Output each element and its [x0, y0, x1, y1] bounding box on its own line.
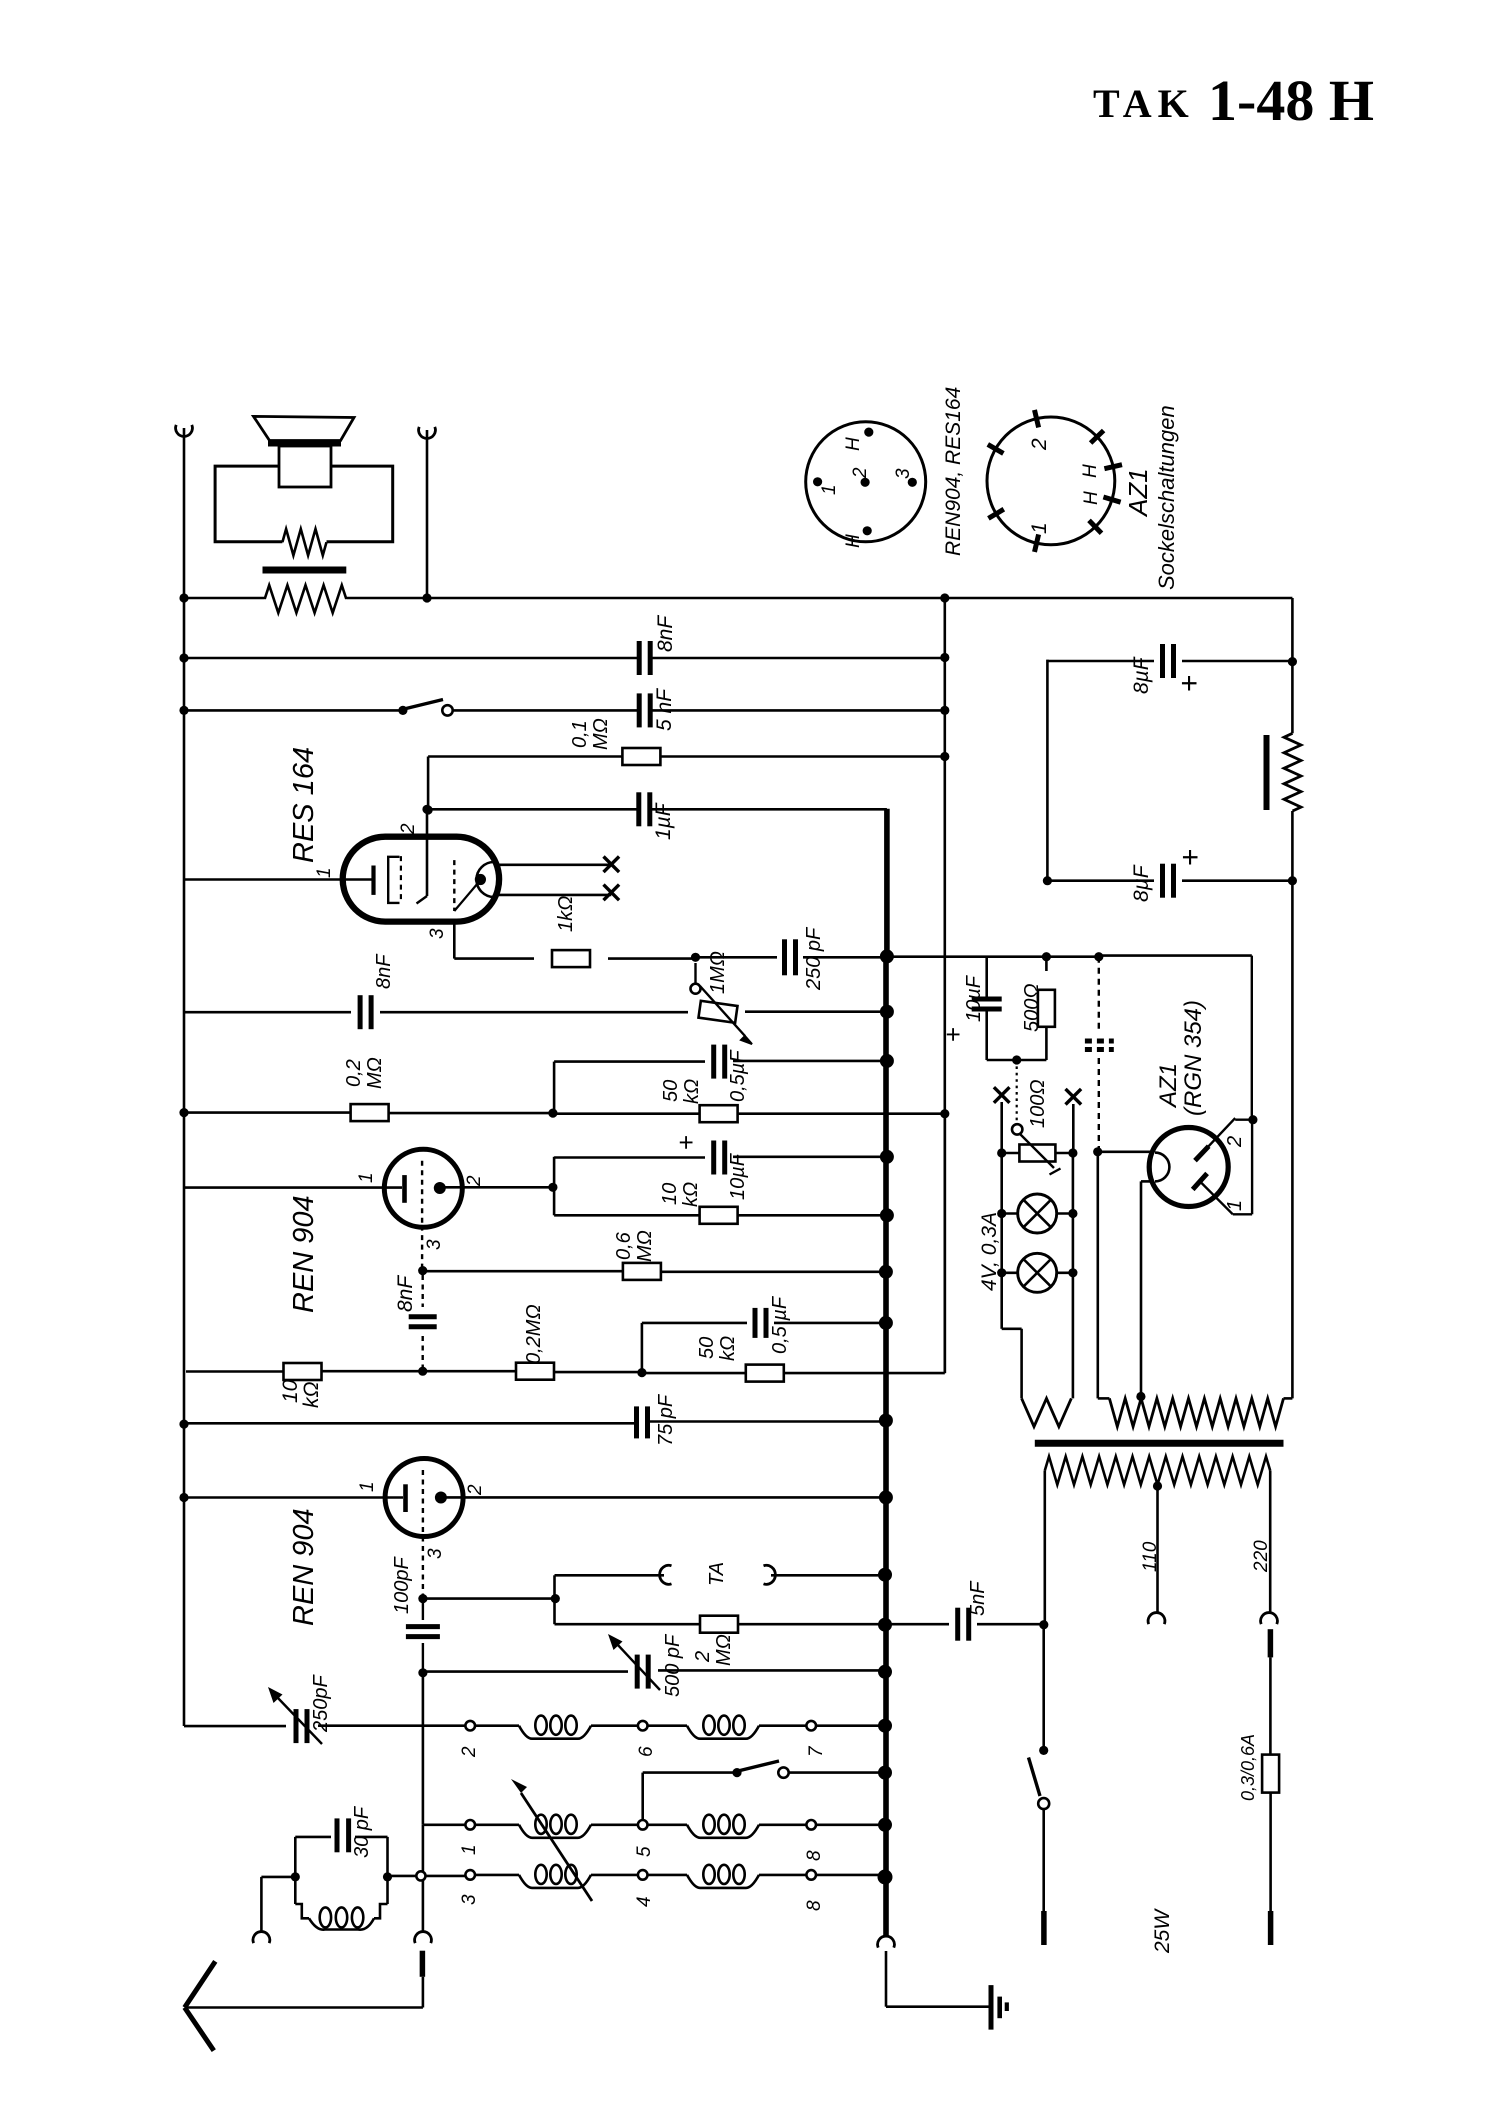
REN904#1 pin2 dot — [548, 1183, 557, 1192]
wire AZ1 filament to CT — [1141, 1181, 1154, 1395]
socket diagram AZ1 base circle — [987, 410, 1122, 552]
label 1kohm — [555, 896, 577, 932]
svg-text:0,2: 0,2 — [343, 1059, 365, 1087]
tube REN904 #2 envelope — [385, 1459, 463, 1537]
wire coil row2 right — [759, 1824, 807, 1827]
wire 8uF#1 line y661 — [1047, 660, 1292, 881]
svg-text:75 pF: 75 pF — [655, 1393, 677, 1446]
wire x1098 to winding — [1097, 1152, 1100, 1399]
mains plug pin left — [1041, 1911, 1047, 1945]
svg-text:3: 3 — [424, 1239, 445, 1250]
wire to pot arm — [1016, 1060, 1018, 1124]
junction dot y1215 bus — [880, 1208, 894, 1222]
RES164 pin1 wire — [184, 878, 374, 881]
svg-text:1kΩ: 1kΩ — [555, 896, 577, 932]
wire 110 tap — [1156, 1489, 1159, 1613]
variable capacitor 250pF — [268, 1687, 322, 1744]
junction dot y1323 bus — [879, 1316, 893, 1330]
tube REN904 #1 envelope — [384, 1149, 462, 1227]
AZ1 filament arc — [1155, 1153, 1169, 1182]
junction dots y1423 — [179, 1414, 893, 1429]
label 8nF top — [654, 615, 677, 652]
wire coil row3 mid — [591, 1874, 638, 1877]
resistor 10kohm #1 — [700, 1207, 738, 1224]
label 10kohm pair — [659, 1182, 702, 1207]
RES164 anode dashed — [454, 860, 478, 911]
svg-text:10: 10 — [659, 1183, 681, 1205]
svg-text:0,3/0,6A: 0,3/0,6A — [1238, 1734, 1258, 1801]
wire 0,5uF#2 line y1323 — [642, 1323, 886, 1373]
svg-text:REN904, RES164: REN904, RES164 — [942, 387, 965, 556]
socket pin 1 — [813, 477, 840, 495]
switch on line y711 — [398, 700, 452, 716]
antenna coil — [295, 1877, 387, 1930]
svg-text:2: 2 — [464, 1175, 485, 1187]
svg-text:8µF: 8µF — [1130, 656, 1153, 694]
wire 2Mohm line y1624 — [555, 1623, 886, 1626]
svg-text:10µF: 10µF — [963, 974, 985, 1022]
terminal circle 1 — [459, 1820, 480, 1855]
RES164 anode dot — [475, 874, 486, 885]
REN904#1 grid dashed — [421, 1161, 423, 1226]
terminal cup 110 — [1148, 1613, 1165, 1625]
capacitor 75pF — [637, 1406, 648, 1438]
REN904#1 pin2 wire — [440, 1186, 553, 1189]
label 8nF #3 — [394, 1275, 417, 1312]
svg-text:MΩ: MΩ — [364, 1057, 386, 1089]
label 100pF — [391, 1556, 413, 1614]
label 0,2Mohm #1 — [343, 1057, 386, 1089]
coil L3b — [648, 1865, 760, 1888]
coil L3a — [475, 1865, 591, 1888]
resistor 2Mohm — [700, 1616, 738, 1633]
X mark filament bottom — [604, 885, 620, 901]
antenna plug pin — [420, 1951, 426, 1977]
svg-text:MΩ: MΩ — [590, 718, 612, 750]
label 30 pF — [351, 1805, 373, 1858]
REN904#1 pin1 wire — [184, 1186, 402, 1189]
svg-text:50: 50 — [660, 1080, 682, 1102]
REN904#1 anode dot — [434, 1182, 446, 1194]
output transformer primary zigzag — [265, 585, 347, 613]
wire right speaker terminal drop — [426, 430, 429, 598]
label 110 — [1140, 1541, 1161, 1572]
dial lamp 1 — [1002, 1194, 1073, 1233]
label 25W — [1151, 1908, 1174, 1954]
mains switch — [1029, 1625, 1050, 1911]
svg-text:0,6: 0,6 — [613, 1231, 635, 1260]
capacitor 0,5uF #2 — [755, 1308, 766, 1338]
wire line y598 right + corner — [945, 598, 1293, 662]
svg-text:AZ1: AZ1 — [1123, 468, 1153, 518]
resistor 50kohm #1 — [700, 1105, 738, 1122]
svg-text:8nF: 8nF — [394, 1275, 417, 1312]
mains plug pin segment 220 — [1268, 1629, 1274, 1657]
wire primary left drop — [1044, 1471, 1047, 1624]
wire dashed x1098 lower — [1098, 1058, 1100, 1152]
resistor 0,2Mohm #1 — [351, 1104, 389, 1121]
svg-text:1µF: 1µF — [652, 802, 675, 840]
svg-text:2: 2 — [459, 1746, 480, 1758]
speaker voice coil — [279, 446, 331, 487]
terminal circle 5 — [634, 1820, 655, 1857]
resistor 500ohm — [1038, 957, 1055, 1060]
svg-text:H: H — [1080, 464, 1101, 478]
svg-text:8nF: 8nF — [373, 953, 395, 989]
svg-text:+: + — [671, 1135, 701, 1150]
capacitor 5nF top — [639, 693, 650, 727]
junction dots TA — [878, 1568, 892, 1632]
junction dot y1157 bus — [880, 1150, 894, 1164]
wire 75pF line y1423 — [184, 1422, 886, 1424]
svg-text:0,1: 0,1 — [569, 720, 591, 748]
REN904#2 pin1 wire — [184, 1496, 403, 1499]
label Sockelschaltungen — [1154, 405, 1179, 590]
junction dot switch bus — [878, 1766, 892, 1780]
svg-text:2: 2 — [692, 1651, 714, 1663]
wire to bus row3 — [816, 1870, 893, 1885]
svg-text:MΩ: MΩ — [713, 1634, 735, 1666]
svg-text:1: 1 — [459, 1844, 480, 1855]
svg-text:220: 220 — [1251, 1540, 1272, 1573]
terminal cup left — [176, 425, 193, 437]
junction dots ren2 — [179, 1490, 893, 1504]
junction dots lamp2 — [997, 1268, 1077, 1277]
wire lamp rail right bottom — [1072, 1273, 1075, 1399]
wire TA junction line y1599 — [418, 1594, 560, 1603]
junction dots y1272 — [418, 1265, 893, 1279]
svg-text:2: 2 — [398, 823, 419, 835]
RES164 filament wires to X — [494, 865, 611, 895]
label 250 pF — [803, 926, 825, 991]
svg-text:1: 1 — [314, 867, 335, 878]
AZ1 anode bar bottom — [1193, 1173, 1207, 1189]
junction dots 100ohm — [997, 1148, 1077, 1157]
terminal cup right — [419, 427, 436, 439]
svg-text:500 pF: 500 pF — [662, 1633, 684, 1697]
label 75 pF — [655, 1393, 677, 1446]
svg-text:REN 904: REN 904 — [288, 1195, 320, 1313]
socket AZ1 pin H labels — [1080, 464, 1102, 505]
resistor 10kohm #2 — [284, 1363, 322, 1380]
wire heater rails mid2 — [1002, 1214, 1073, 1273]
label 50kohm #2 — [696, 1336, 739, 1361]
resistor 0,2Mohm #2 — [516, 1363, 554, 1380]
REN904#2 pin2 wire — [441, 1496, 886, 1499]
wire bottom of filter — [987, 1055, 1047, 1064]
junction dot y1012 bus — [880, 1005, 894, 1019]
svg-text:4V, 0,3A: 4V, 0,3A — [978, 1212, 1001, 1291]
wire heater rails mid — [1002, 1153, 1073, 1214]
label REN904, RES164 — [942, 387, 965, 556]
svg-text:3: 3 — [459, 1894, 480, 1905]
wire 0,6Mohm line y1272 — [423, 1270, 886, 1273]
wire heater rail left top — [994, 1087, 1010, 1153]
wire line y1372 — [186, 1114, 945, 1373]
svg-text:kΩ: kΩ — [681, 1079, 703, 1104]
resistor 1kohm — [552, 950, 590, 967]
coil L2b — [648, 1815, 760, 1838]
junction dots lamp1 — [997, 1209, 1077, 1218]
RES164 filament arc — [477, 862, 495, 897]
label AZ1 (RGN 354) — [1155, 1000, 1207, 1116]
wire 250pF line y1726 — [184, 1724, 465, 1727]
transformer HV winding — [1098, 1398, 1293, 1426]
svg-text:H: H — [843, 534, 864, 548]
capacitor 8nF #3 vertical — [409, 1275, 437, 1371]
junction dot y810 — [422, 805, 431, 814]
terminal TA left — [660, 1565, 672, 1584]
AZ1 pin2 dot — [1248, 1115, 1257, 1124]
svg-text:10: 10 — [279, 1379, 302, 1403]
fuse 0,3/0,6A — [1262, 1755, 1279, 1793]
svg-text:+: + — [1173, 674, 1206, 692]
junction dots y958 — [691, 949, 1104, 963]
potentiometer 1Mohm — [691, 963, 753, 1044]
junction dot 8uF#1 right — [1288, 657, 1297, 666]
primary CT dot — [1153, 1481, 1162, 1490]
svg-text:+: + — [1174, 848, 1207, 866]
svg-text:5 nF: 5 nF — [653, 688, 676, 731]
junction dots y1372 — [418, 1367, 646, 1378]
label 1uF — [652, 802, 675, 840]
junction dots y658 — [179, 653, 949, 663]
AZ1 pin labels — [1224, 1136, 1246, 1211]
wire line y598 left — [184, 597, 945, 600]
RES164 screen grid (pin2) — [417, 810, 428, 904]
wire lamp rail left bottom — [1002, 1273, 1022, 1399]
capacitor 8nF #2 — [360, 995, 371, 1029]
wire 0,5uF line y1062 — [554, 1061, 887, 1114]
capacitor 0,5uF #1 — [714, 1045, 725, 1079]
capacitor 10uF right — [972, 957, 1002, 1060]
svg-text:2: 2 — [1028, 438, 1051, 451]
label REN 904 #1 — [288, 1195, 320, 1313]
capacitor mains dashed — [1085, 1041, 1114, 1050]
svg-text:250 pF: 250 pF — [803, 926, 825, 991]
ground symbol — [991, 1985, 1007, 2030]
wire line y1113 — [184, 1113, 945, 1114]
capacitor 8uF #2 — [1163, 864, 1174, 898]
wire line y757 — [428, 757, 945, 811]
wire line y658 — [184, 657, 945, 660]
socket diagram REN904/RES164 base circle — [806, 422, 926, 542]
svg-text:1MΩ: 1MΩ — [707, 951, 729, 994]
wire y958 right — [696, 956, 1252, 958]
wire fuse lower — [1269, 1793, 1272, 1911]
ground bus cup — [878, 1936, 895, 1948]
svg-text:0,2MΩ: 0,2MΩ — [523, 1304, 545, 1364]
wire antenna lead — [185, 1977, 423, 2008]
wire line y711 with switch — [184, 709, 945, 712]
RES164 label pin2 — [398, 823, 419, 835]
terminal cup earth — [253, 1932, 270, 1944]
coil L2a — [475, 1815, 591, 1838]
label 220 — [1251, 1540, 1272, 1573]
REN904#2 labels — [357, 1481, 486, 1559]
svg-text:kΩ: kΩ — [680, 1182, 702, 1207]
label 50kohm #1 — [660, 1079, 703, 1104]
wire coil row1 right — [759, 1724, 807, 1727]
capacitor 8nF top — [639, 641, 650, 675]
RES164 grid bracket — [388, 856, 401, 904]
wire coil row2 mid — [591, 1824, 638, 1827]
terminal circle 2 — [459, 1721, 480, 1758]
junction dots y1113 — [179, 1108, 949, 1118]
antenna symbol — [185, 1961, 216, 2050]
label + 10uF — [671, 1135, 701, 1150]
wire ground lead — [886, 1951, 991, 2007]
wire 500pF line y1673 — [418, 1665, 892, 1679]
svg-text:H: H — [843, 437, 864, 451]
wire x423 vertical (ant column) — [422, 1673, 425, 1871]
svg-text:110: 110 — [1140, 1541, 1161, 1572]
svg-text:1: 1 — [1028, 522, 1051, 534]
junction dots y598 — [179, 593, 949, 602]
RES164 pin3 wire — [454, 922, 695, 959]
svg-text:8: 8 — [804, 1900, 825, 1911]
wire left bus vertical — [183, 428, 186, 1726]
capacitor 250pF — [785, 939, 796, 975]
capacitor 8uF #1 — [1163, 644, 1174, 678]
label 0,5uF #2 — [769, 1295, 791, 1354]
junction dot y757 — [940, 752, 949, 761]
svg-text:2: 2 — [1224, 1136, 1246, 1148]
capacitor 10uF #1 — [714, 1141, 725, 1175]
wire to bus row2 — [816, 1818, 892, 1832]
svg-text:1: 1 — [356, 1172, 377, 1183]
coil L1a — [475, 1716, 591, 1739]
junction dot y1062 bus — [880, 1054, 894, 1068]
svg-text:AZ1: AZ1 — [1155, 1063, 1182, 1109]
label 10kohm #2 — [279, 1379, 323, 1408]
wire right bus down to transformer — [1291, 881, 1294, 1399]
transformer core bar — [1035, 1440, 1284, 1447]
label 0,1 Mohm — [569, 718, 612, 750]
speaker flange bar — [268, 441, 341, 447]
RES164 pin2 node dot — [424, 805, 433, 814]
socket AZ1 pin 1 label — [1028, 522, 1051, 534]
AZ1 anode top lead — [1202, 1118, 1253, 1153]
capacitor 1uF — [639, 792, 650, 826]
svg-text:(RGN 354): (RGN 354) — [1180, 1000, 1207, 1116]
svg-text:8µF: 8µF — [1130, 864, 1153, 902]
svg-text:MΩ: MΩ — [634, 1230, 656, 1262]
tuning arrow coils — [511, 1779, 592, 1901]
junction dots 8uF#2 — [1043, 876, 1297, 885]
wire coil row2 left — [423, 1824, 465, 1827]
label 10uF #1 — [727, 1152, 749, 1200]
dial lamp 2 — [1002, 1253, 1073, 1292]
RES164 label pin1 — [314, 867, 335, 878]
output transformer box — [215, 466, 393, 542]
socket pin 3 — [893, 468, 917, 487]
bus x944 vertical — [943, 598, 946, 1373]
svg-text:0,5µF: 0,5µF — [727, 1049, 749, 1102]
label TA — [706, 1562, 728, 1586]
svg-text:7: 7 — [806, 1745, 827, 1757]
label 100ohm — [1027, 1079, 1049, 1128]
RES164 cathode bar — [371, 866, 375, 895]
label 8uF #1 — [1130, 656, 1206, 694]
svg-text:3: 3 — [893, 468, 914, 479]
X mark filament top — [604, 857, 620, 873]
REN904#2 anode dot — [435, 1492, 447, 1504]
REN904#2 grid dashed — [422, 1470, 424, 1535]
svg-text:H: H — [1081, 491, 1102, 505]
wire 10uF line y1157 — [554, 1157, 887, 1188]
RES164 label pin3 — [427, 928, 448, 939]
label 500ohm — [1021, 983, 1043, 1032]
svg-text:30 pF: 30 pF — [351, 1805, 373, 1858]
svg-text:5nF: 5nF — [967, 1580, 989, 1616]
label 0,5uF #1 — [727, 1049, 749, 1102]
wire pin2 vertical — [553, 1187, 556, 1215]
terminal TA right — [764, 1565, 776, 1584]
transformer core bar — [263, 567, 347, 574]
svg-text:3: 3 — [427, 928, 448, 939]
label AZ1 — [1123, 468, 1153, 518]
terminal cup antenna — [415, 1932, 432, 1944]
terminal circle 3 — [459, 1870, 480, 1905]
wire coil row1 mid — [591, 1724, 638, 1727]
REN904#2 cathode bar — [403, 1484, 408, 1512]
terminal circle 6 — [636, 1721, 657, 1757]
label 2Mohm — [692, 1634, 735, 1666]
socket pin H top — [843, 428, 873, 452]
variable capacitor 500pF — [608, 1634, 660, 1690]
terminal circle 4 — [634, 1870, 655, 1907]
label 0,2Mohm #2 — [523, 1304, 545, 1364]
wire 220 drop — [1269, 1471, 1272, 1613]
wire coil row3 left — [388, 1871, 466, 1880]
svg-text:2: 2 — [850, 467, 871, 479]
svg-text:kΩ: kΩ — [717, 1336, 739, 1361]
coil L1b — [648, 1716, 760, 1739]
label 8nF #2 — [373, 953, 395, 989]
mains plug pin right — [1268, 1911, 1274, 1945]
REN904#1 pin3 dashed — [421, 1226, 423, 1271]
svg-text:8: 8 — [804, 1850, 825, 1861]
wire 8nF#2 line y1012 — [184, 1010, 887, 1013]
junction dot 5nF right — [1039, 1620, 1048, 1629]
wire TA bracket — [555, 1575, 886, 1624]
wire 10kohm line y1215 — [554, 1214, 887, 1217]
svg-text:1-48 H: 1-48 H — [1208, 68, 1374, 133]
wire antenna column bottom — [422, 1880, 425, 1931]
wire to bus row1 — [816, 1719, 892, 1733]
label 10uF right — [938, 974, 985, 1042]
resistor bleeder zigzag right — [1267, 662, 1302, 881]
transformer CT dot — [1136, 1392, 1145, 1401]
label REN 904 #2 — [288, 1508, 320, 1626]
label 5nF top — [653, 688, 676, 731]
svg-text:RES 164: RES 164 — [288, 747, 320, 863]
svg-text:0,5 µF: 0,5 µF — [769, 1295, 791, 1354]
resistor 0,1 Mohm — [622, 748, 660, 765]
speaker cone — [254, 416, 355, 440]
antenna box dots — [291, 1872, 392, 1881]
wire coil row3 right — [759, 1874, 807, 1877]
capacitor 30pF — [337, 1818, 349, 1852]
svg-text:250pF: 250pF — [310, 1674, 332, 1733]
label 8uF #2 — [1130, 848, 1207, 902]
svg-text:500Ω: 500Ω — [1021, 983, 1043, 1032]
transformer 4V winding — [1022, 1398, 1072, 1426]
svg-text:kΩ: kΩ — [300, 1382, 323, 1409]
title TAK 1-48 H — [1093, 68, 1374, 133]
svg-text:1: 1 — [357, 1481, 378, 1492]
